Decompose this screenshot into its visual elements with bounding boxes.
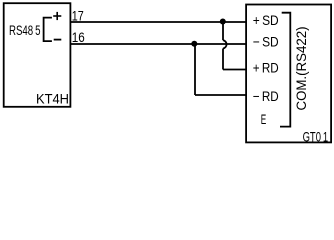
- svg-text:E: E: [261, 111, 267, 127]
- svg-text:COM.(RS422): COM.(RS422): [294, 27, 309, 111]
- svg-text:− RD: − RD: [253, 88, 279, 104]
- wire junction B down: [194, 44, 196, 95]
- svg-text:GT0 1: GT0 1: [303, 128, 329, 144]
- wire junction A down: [222, 22, 224, 40]
- RS485 terminal bracket: [44, 18, 52, 41]
- plus terminal: [53, 12, 61, 20]
- wire hop over wire 16: [223, 40, 227, 48]
- wire 17 (+SD): [71, 21, 247, 23]
- display box GT01: [246, 5, 331, 143]
- wire 16 (-SD): [71, 43, 247, 45]
- wire to -RD: [195, 94, 246, 96]
- controller box KT4H: [4, 3, 71, 107]
- wire down to +RD: [222, 49, 224, 70]
- junction A on wire 17: [220, 19, 226, 25]
- svg-text:+ SD: + SD: [253, 12, 279, 28]
- wire to +RD: [223, 69, 246, 71]
- minus terminal: [54, 39, 62, 41]
- svg-text:− SD: − SD: [253, 34, 279, 50]
- svg-text:17: 17: [72, 8, 84, 24]
- svg-text:RS48 5: RS48 5: [9, 22, 41, 38]
- svg-text:KT4H: KT4H: [36, 90, 69, 106]
- svg-text:+ RD: + RD: [253, 59, 279, 75]
- junction B on wire 16: [191, 41, 197, 47]
- svg-text:16: 16: [72, 29, 85, 45]
- COM port bracket: [280, 13, 290, 127]
